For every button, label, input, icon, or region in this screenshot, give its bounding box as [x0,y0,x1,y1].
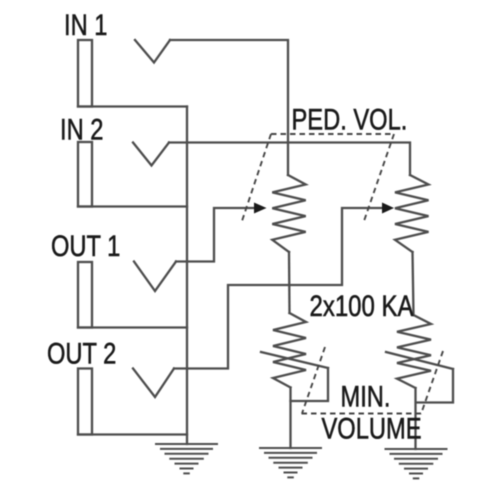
wire IN1 tip to left pot top [170,40,288,175]
wiper arrow left pot [254,203,267,214]
ground left trimmer [259,448,322,477]
svg-text:OUT 1: OUT 1 [51,229,120,262]
wire IN2 sleeve [78,205,187,207]
trimmer R3 wiper tap line [386,352,453,369]
trimmer R3 MIN. VOLUME right element [397,315,431,388]
wire IN1 sleeve [78,105,187,107]
dashed gang link right trimmer diagonal [421,351,443,414]
wire right trimmer wiper loop [416,369,453,403]
trimmer R2 MIN. VOLUME left element [273,313,306,388]
wire OUT2 tip to right pot wiper [174,208,384,369]
wire IN2 tip to right pot top [169,143,410,176]
svg-text:VOLUME: VOLUME [322,412,422,445]
jack J4 OUT 2 tip contact [133,369,174,398]
dashed gang link PED. VOL. horizontal [271,133,394,135]
jack J2 IN 2 tip contact [133,143,169,166]
wire left pot bottom to left trimmer [288,252,291,313]
wiper arrow right pot [382,203,394,214]
svg-text:IN 2: IN 2 [60,113,103,146]
jack J3 OUT 1 tip contact [134,262,176,292]
jack J2 IN 2 body [78,142,92,207]
svg-text:PED. VOL.: PED. VOL. [292,103,408,136]
svg-text:IN 1: IN 1 [64,8,107,41]
wire OUT1 sleeve [78,326,187,328]
jack J3 OUT 1 body [78,262,92,328]
svg-text:2x100 KA: 2x100 KA [310,288,415,322]
svg-text:OUT 2: OUT 2 [47,337,116,370]
wire left trimmer wiper loop [291,368,329,401]
dashed gang link left diagonal [242,134,271,221]
ground main [155,444,218,473]
jack J1 IN 1 body [78,40,92,107]
potentiometer R1b PED. VOL. right element [395,175,429,252]
jack J1 IN 1 tip contact [135,40,170,63]
dashed gang link MIN. VOLUME horizontal [302,413,423,415]
dashed gang link left trimmer diagonal [302,347,325,414]
wire right pot bottom to right trimmer [413,252,414,315]
trimmer R2 wiper tap line [261,352,328,368]
wire OUT2 sleeve [78,433,187,435]
jack J4 OUT 2 body [78,369,92,435]
wire left trimmer bottom to ground [289,388,291,449]
dashed gang link right diagonal [364,134,394,221]
wire ground bus [186,107,188,445]
ground right trimmer [385,449,448,478]
svg-text:MIN.: MIN. [341,380,391,413]
wire OUT1 tip to left pot wiper [176,208,256,262]
wire right trimmer bottom to ground [414,388,416,449]
potentiometer R1a PED. VOL. left element [272,175,305,252]
